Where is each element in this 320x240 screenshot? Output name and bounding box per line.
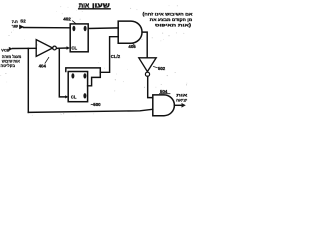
bubble of U404 (53, 46, 57, 50)
svg-text:504: 504 (160, 89, 168, 94)
svg-text:402: 402 (63, 17, 71, 22)
note text block top-right (143, 11, 193, 27)
svg-text:אות האיפוס): אות האיפוס) (155, 22, 192, 27)
wire clock branch down to U500 CL (59, 48, 66, 97)
net CL/2 wire to AND405 input B (100, 37, 118, 73)
output label (176, 92, 187, 102)
bubble of U502 (145, 72, 149, 76)
flip-flop U500 (68, 72, 87, 102)
svg-text:CL: CL (71, 95, 77, 100)
leader 504 (160, 93, 171, 95)
arrowhead input VCB (9, 47, 13, 51)
wire VCB to inverter 404 (13, 47, 37, 49)
svg-text:VCB: VCB (1, 48, 9, 52)
arrowhead input S2 (19, 25, 24, 30)
leader 502 (154, 67, 158, 68)
leader 404 (45, 57, 49, 63)
svg-text:יציאה: יציאה (176, 97, 187, 102)
inverter U502 pointing down (139, 58, 156, 72)
wire U402 Q to AND405 input A (88, 27, 118, 30)
wire U502 out to AND504 input A (148, 76, 153, 97)
wire bottom VCB branch to AND504 input B (28, 109, 153, 112)
pin Qbar of U500 (83, 93, 86, 98)
svg-text:S2: S2 (20, 19, 26, 24)
leader 405 (133, 43, 135, 44)
svg-text:7-ח: 7-ח (12, 20, 18, 24)
svg-text:CL: CL (71, 45, 77, 50)
wire U405 out to inverter 502 (142, 32, 147, 58)
svg-text:CL/2: CL/2 (111, 54, 121, 59)
flip-flop U402 (70, 24, 88, 52)
feedback wire U500 Q to D (66, 68, 101, 86)
arrowhead into U500 CL (65, 95, 68, 98)
svg-text:~500: ~500 (91, 102, 101, 107)
svg-text:(אם השיבוש אינו זהה: (אם השיבוש אינו זהה (143, 11, 193, 16)
wire S2 to FF402 D input (24, 27, 71, 29)
pin Q of U402 (84, 26, 87, 31)
leader 402 (73, 21, 77, 24)
title underline (79, 8, 111, 10)
wire U404 out to U402 CL (56, 47, 67, 49)
svg-text:מן הקודם מבצע את: מן הקודם מבצע את (150, 17, 193, 22)
svg-text:404: 404 (39, 63, 47, 68)
AND gate U504 (153, 95, 175, 116)
junction at x29 (27, 48, 29, 112)
title: clock signal heading (79, 3, 111, 10)
input label S2 source (12, 20, 18, 28)
svg-text:405: 405 (128, 44, 136, 49)
pin D of U500 (71, 73, 74, 78)
note text under VCB (1, 54, 22, 68)
svg-text:502: 502 (158, 66, 166, 71)
wire U504 output (174, 104, 182, 106)
arrowhead output (182, 103, 186, 108)
arrowhead into U402 CL (67, 46, 71, 49)
svg-text:שגר: שגר (12, 24, 18, 28)
inverter U404 (36, 40, 52, 57)
pin Q of U500 (83, 73, 86, 78)
AND gate U405 (118, 21, 142, 43)
svg-text:בקליטה: בקליטה (1, 63, 16, 68)
pin D of U402 (72, 26, 75, 31)
